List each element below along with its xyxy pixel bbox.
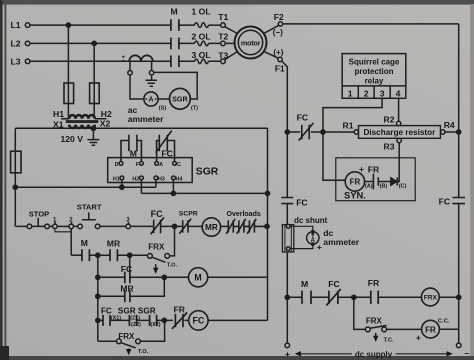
svg-text:L1: L1 (11, 20, 21, 30)
wire F2 to right bus (283, 23, 459, 25)
wire right vertical feeder (267, 128, 269, 320)
terminal dc minus (456, 343, 461, 348)
node rowA right bus (457, 295, 461, 299)
wire L1 line (30, 24, 221, 26)
contact FR rowA (371, 291, 378, 304)
svg-text:R4: R4 (444, 120, 455, 130)
wire SGR H4 to rail2 (172, 180, 174, 194)
svg-text:MR: MR (107, 238, 121, 248)
contact SGR (X2) (150, 315, 157, 326)
relay box Squirrel cage protection relay (342, 54, 406, 99)
svg-text:MR: MR (120, 283, 134, 293)
terminal SGR H3 (154, 176, 158, 180)
contact FC NO on left dc bus (281, 198, 293, 204)
svg-text:dc supply: dc supply (355, 350, 393, 359)
fuse F-H2 (90, 83, 100, 104)
contact FC (X1) (103, 315, 110, 326)
terminal L3 (25, 59, 30, 64)
wire FR coil to right bus (439, 328, 458, 330)
wire CT left lead down to ammeter (130, 75, 144, 99)
svg-text:M: M (81, 238, 88, 248)
wire SGR H1 to rail1 (121, 180, 123, 187)
wire L1 drop to fuse (67, 25, 69, 83)
wire FC-branch down (129, 255, 131, 271)
svg-text:T.O.: T.O. (138, 349, 149, 355)
contact SGR (Z1)(Z2) (129, 315, 136, 326)
terminal SGR A (155, 162, 159, 166)
contact FC row3 (125, 272, 130, 284)
wire branch down to FRX switch (354, 297, 365, 329)
svg-text:START: START (77, 203, 102, 212)
ground 120V secondary (87, 128, 99, 145)
svg-text:M: M (130, 148, 137, 158)
svg-text:2: 2 (69, 217, 73, 223)
svg-text:ammeter: ammeter (128, 114, 164, 124)
svg-text:2: 2 (364, 88, 369, 98)
contact FC NO on right dc bus (452, 198, 465, 204)
wire L2 drop to fuse (93, 43, 95, 83)
svg-text:H1: H1 (113, 176, 120, 182)
wire motor to F1 (263, 51, 278, 58)
node row3 right (162, 275, 166, 279)
svg-text:3: 3 (126, 218, 130, 224)
SGR coil (T) (170, 88, 191, 109)
svg-text:2 OL: 2 OL (192, 32, 211, 42)
wire FR coil to battery (365, 181, 373, 183)
svg-text:dc shunt: dc shunt (294, 216, 328, 225)
terminal SGR D (119, 162, 123, 166)
pushbutton START (74, 212, 126, 228)
wire MR coil to overloads (221, 225, 228, 227)
wire FRX switch to FR coil (387, 328, 422, 330)
contact MR row4 (125, 290, 130, 302)
wire X1 secondary to left bus (15, 127, 93, 129)
svg-text:(X1): (X1) (111, 316, 121, 322)
svg-text:1 OL: 1 OL (192, 7, 211, 17)
wire F1 to left dc bus (282, 61, 288, 197)
arrow dc supply left (298, 353, 352, 355)
svg-text:L3: L3 (11, 56, 21, 66)
ground CT (146, 75, 158, 86)
terminal F1 (278, 57, 282, 61)
wire relay terminal 3 to node R1-line (323, 98, 382, 132)
resistor box Discharge resistor (359, 126, 441, 139)
svg-text:SYN.: SYN. (344, 190, 366, 201)
svg-text:T.O.: T.O. (167, 262, 178, 268)
svg-text:FC: FC (296, 197, 307, 207)
terminal T3 (221, 59, 226, 64)
svg-text:FC: FC (439, 197, 450, 207)
wire 1 to 2 (57, 225, 69, 227)
svg-text:FC: FC (328, 279, 339, 289)
wire terminal2 down to row2 (70, 229, 72, 256)
contact M pole2 (171, 38, 179, 50)
node rail2 right vertical (265, 191, 269, 195)
svg-text:+: + (416, 332, 421, 342)
wire rail2 (141, 192, 267, 194)
terminal 1 (53, 222, 58, 229)
terminal SGR H1 (120, 176, 124, 180)
wire left dc bus lower (286, 204, 288, 343)
svg-text:FC: FC (101, 306, 112, 315)
svg-text:+: + (317, 242, 322, 252)
wire L3 line (30, 60, 221, 62)
node row5 right (162, 318, 166, 322)
wire L2 line (30, 42, 221, 44)
svg-text:H3: H3 (158, 176, 165, 182)
terminal dc plus (285, 343, 290, 348)
svg-text:C: C (177, 162, 181, 168)
wire rail1 (15, 186, 156, 188)
wire SGR loop return (154, 72, 197, 99)
svg-text:STOP: STOP (29, 209, 50, 218)
svg-text:3 OL: 3 OL (192, 50, 211, 60)
wire row6 up to row5 (140, 320, 164, 341)
svg-text:(Z2): (Z2) (131, 322, 141, 328)
wire battery to diode (378, 181, 390, 183)
coil MR (202, 218, 220, 236)
coil FRX (421, 288, 439, 306)
svg-text:T2: T2 (218, 31, 228, 41)
wire M to MR (89, 254, 110, 256)
svg-text:SGR: SGR (138, 306, 156, 315)
wire seal branch terminal1-2 link (55, 229, 71, 232)
svg-text:X2: X2 (100, 119, 111, 129)
terminal F2 (278, 22, 282, 26)
svg-text:+: + (285, 349, 290, 359)
wire left ladder vertical x98 (97, 255, 99, 341)
svg-text:A: A (159, 162, 163, 168)
terminal T2 (221, 41, 226, 46)
coil FC (189, 311, 208, 330)
svg-text:FR: FR (368, 164, 380, 174)
svg-text:FC: FC (151, 209, 163, 219)
overload heater 3 OL (195, 59, 209, 64)
svg-text:M: M (301, 279, 308, 289)
svg-text:FC: FC (297, 113, 308, 123)
svg-text:H4: H4 (176, 176, 183, 182)
svg-text:+: + (359, 164, 364, 174)
svg-text:T3: T3 (218, 51, 228, 61)
box FR SYN (336, 158, 415, 201)
ammeter dc A (307, 230, 319, 245)
svg-text:H2: H2 (101, 109, 112, 119)
wire X2 rail to right vertical (93, 127, 267, 129)
node seal-in row1 (172, 224, 176, 228)
svg-text:(A): (A) (365, 183, 373, 189)
wire row5 (98, 319, 189, 321)
wire row6 left (98, 340, 117, 342)
node junction L2-fuse (92, 41, 96, 45)
coil FR (422, 320, 440, 338)
wire FC to SCPR (161, 225, 182, 227)
terminal R4 (441, 130, 445, 134)
terminal L2 (25, 41, 30, 46)
wire M coil to feeder (208, 276, 268, 278)
node row3 left (96, 275, 100, 279)
wire left control bus (14, 128, 16, 226)
overload heater 1 OL (195, 23, 209, 28)
wire discharge line (287, 131, 458, 133)
svg-text:Squirrel cage: Squirrel cage (349, 58, 400, 67)
diode D1 (391, 177, 398, 185)
svg-text:Overloads: Overloads (227, 211, 261, 218)
terminal R3 (397, 138, 401, 142)
svg-text:1: 1 (53, 218, 57, 224)
svg-text:D: D (115, 162, 119, 168)
battery FR source (373, 174, 378, 190)
terminal SGR H2 (140, 176, 144, 180)
current transformer CT on L3 (122, 55, 153, 62)
wire row4 (98, 277, 165, 296)
node H1 rail1 (120, 185, 124, 189)
wire FRX coil to right bus (439, 296, 459, 298)
switch FRX timed-open row2 (148, 254, 170, 271)
svg-text:C.C.: C.C. (438, 318, 450, 324)
svg-text:SGR: SGR (118, 306, 136, 315)
svg-text:FR: FR (174, 305, 186, 315)
contact SCPR NC (179, 219, 191, 234)
svg-text:A: A (311, 238, 316, 244)
node X2 junction (91, 126, 95, 130)
node rowA branch (352, 295, 356, 299)
svg-text:FRX: FRX (424, 295, 438, 302)
fuse F-H1 (64, 83, 74, 104)
wire fuse to H2 (93, 104, 95, 119)
arrow dc supply right (396, 353, 450, 355)
contact FC NC on discharge line (299, 123, 314, 141)
contact M pole1 (171, 19, 179, 31)
contact MR seal (110, 249, 117, 261)
svg-text:120 V: 120 V (61, 134, 84, 144)
svg-text:−: − (464, 349, 469, 359)
svg-text:F1: F1 (275, 63, 285, 73)
wire A to SGR coil (158, 98, 169, 100)
svg-text:SGR: SGR (172, 95, 188, 104)
wire CT lead left (129, 62, 131, 70)
contact overloads 3x NC (226, 219, 267, 234)
node row5 left (96, 318, 100, 322)
node dc bus rowA (285, 295, 289, 299)
wire SGR H2 to rail2 (140, 180, 142, 194)
wire shunt to dc ammeter top (290, 226, 313, 231)
svg-text:F2: F2 (274, 12, 284, 22)
svg-text:SGR: SGR (196, 167, 219, 178)
terminal R1 (354, 130, 358, 134)
svg-text:(S): (S) (159, 106, 167, 112)
wire rowA segments (287, 296, 421, 298)
svg-text:1: 1 (348, 88, 353, 98)
svg-text:FC: FC (161, 148, 172, 158)
node overloads right vertical (265, 224, 269, 228)
wire shunt to dc ammeter bottom (290, 244, 313, 249)
wire row3 left (98, 276, 189, 278)
wire 3 to FC (131, 225, 153, 227)
svg-text:motor: motor (241, 38, 261, 47)
node H4 rail2 (171, 191, 175, 195)
svg-text:(Z1): (Z1) (130, 316, 140, 322)
terminal CT right (149, 71, 153, 75)
wire motor to F2 (263, 25, 279, 34)
svg-text:FC: FC (193, 316, 205, 326)
contact M rowA (302, 291, 311, 304)
switch FRX timed-close (365, 325, 386, 339)
wire fuse to H1 (67, 104, 69, 119)
wire relay3 down to FR coil (323, 132, 345, 180)
wire T3 to motor (225, 51, 238, 60)
coil M (189, 268, 208, 287)
wire right dc bus (458, 24, 460, 343)
terminal SGR C (173, 162, 177, 166)
svg-text:H2: H2 (132, 176, 139, 182)
wire T2 to motor (225, 42, 234, 44)
node row2 FC-branch (128, 253, 132, 257)
wire row2 left (71, 254, 82, 256)
svg-text:(+): (+) (273, 48, 283, 57)
wire MR to FRX (117, 254, 147, 256)
svg-text:H1: H1 (53, 109, 64, 119)
svg-text:FC: FC (121, 264, 132, 274)
node relay3 discharge line (321, 130, 325, 134)
wire FC coil to feeder (208, 319, 267, 321)
svg-text:FRX: FRX (118, 332, 135, 341)
svg-text:FR: FR (368, 278, 380, 288)
svg-text:FRX: FRX (148, 242, 165, 251)
wire SGR H3 to rail1 (155, 180, 157, 187)
terminal SGR F (140, 162, 144, 166)
svg-text:R1: R1 (343, 121, 354, 131)
terminal T1 (221, 23, 226, 28)
svg-text:Discharge resistor: Discharge resistor (363, 128, 436, 137)
contact M between SGR D-F (121, 135, 141, 162)
ammeter A (S) (144, 92, 158, 106)
fuse control circuit (11, 151, 21, 173)
coil FR exciter field (345, 172, 364, 191)
terminal SGR H4 (172, 176, 176, 180)
contact M seal (82, 249, 90, 261)
contact M pole3 (171, 56, 179, 68)
svg-text:(C): (C) (399, 183, 407, 189)
svg-text:(B): (B) (380, 183, 388, 189)
svg-text:(−): (−) (273, 28, 283, 37)
node R4 right bus (457, 130, 461, 134)
svg-text:MR: MR (205, 223, 218, 232)
transformer T1 control 120V (61, 115, 107, 128)
pushbutton STOP (15, 218, 52, 229)
svg-text:M: M (171, 7, 178, 17)
contact FC NC between SGR A-C (156, 131, 175, 162)
svg-text:A: A (148, 97, 153, 104)
svg-text:protection: protection (354, 67, 393, 76)
terminal 2 (69, 222, 74, 229)
dc shunt resistor (282, 224, 293, 252)
terminal 3 (126, 222, 131, 229)
svg-text:R3: R3 (384, 141, 395, 151)
terminal R2 (396, 121, 400, 125)
node left bus rail1 (13, 185, 17, 189)
svg-text:T1: T1 (218, 12, 228, 22)
contact FR NC row5 (172, 313, 187, 329)
svg-text:FRX: FRX (366, 316, 383, 325)
wire diode to R3 (397, 143, 399, 182)
terminal CT left (128, 71, 132, 75)
svg-text:R2: R2 (384, 114, 395, 124)
svg-text:(X2): (X2) (150, 322, 160, 328)
svg-text:relay: relay (365, 77, 384, 86)
wire FRX up to row1 (170, 229, 175, 256)
svg-text:SCPR: SCPR (179, 211, 198, 218)
svg-text:FR: FR (425, 325, 436, 334)
svg-text:X1: X1 (53, 120, 64, 130)
node row4 left (96, 294, 100, 298)
node F1-bus discharge line (285, 130, 289, 134)
svg-text:ammeter: ammeter (323, 237, 359, 247)
svg-text:L2: L2 (11, 39, 21, 49)
switch FRX timed-open row6 (117, 339, 141, 352)
node junction L1-fuse (66, 23, 70, 27)
svg-text:4: 4 (396, 88, 401, 98)
wire T1 to motor (225, 27, 238, 34)
relay box SGR (108, 158, 193, 183)
svg-text:3: 3 (380, 88, 385, 98)
overload heater 2 OL (195, 41, 209, 46)
svg-text:(T): (T) (191, 106, 198, 112)
wire SCPR to MR coil (188, 225, 202, 227)
contact FC NC row1 (151, 217, 165, 234)
contact FC NC rowA (326, 289, 341, 306)
terminal L1 (25, 23, 30, 28)
svg-text:FR: FR (350, 178, 361, 187)
node row2 left vertical (96, 253, 100, 257)
motor M1 (235, 27, 267, 59)
svg-text:M: M (194, 273, 201, 283)
wire CT lead right (151, 62, 153, 70)
svg-text:T.C.: T.C. (384, 337, 394, 343)
wire relay terminal 4 to R2 (398, 98, 400, 121)
